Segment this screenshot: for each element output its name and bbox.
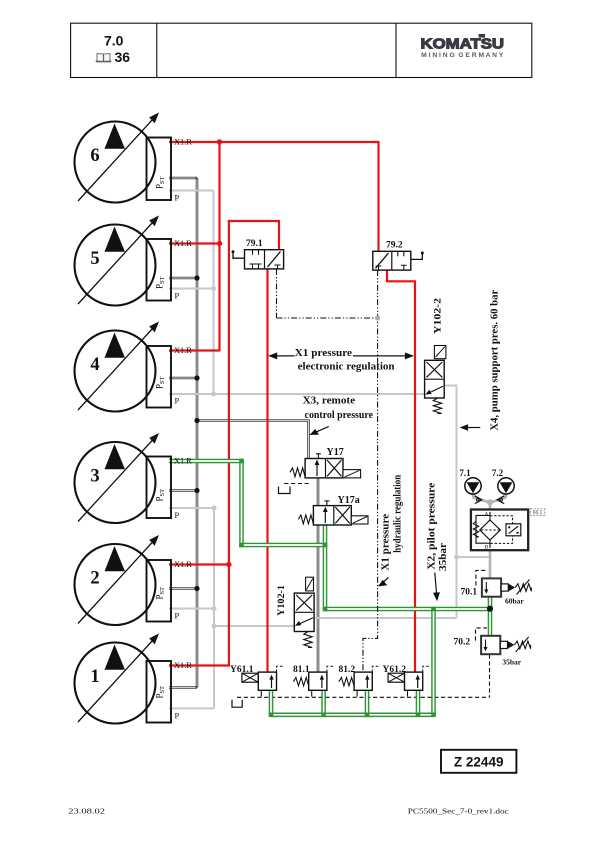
wire: pump 5 Pst stub bbox=[169, 277, 197, 280]
svg-text:X1.R: X1.R bbox=[174, 138, 192, 147]
drawing number Z 22449 bbox=[441, 750, 516, 773]
svg-text:X1.R: X1.R bbox=[174, 239, 192, 248]
svg-text:KOMATSU: KOMATSU bbox=[421, 36, 505, 52]
wire: dash-dot from 79.1 bbox=[276, 269, 278, 318]
valve Y17 bbox=[290, 447, 361, 478]
wire: green riser bbox=[431, 609, 436, 715]
green wire junction (271,714.8) bbox=[269, 713, 274, 718]
wire: 70.1 pilot dashed bbox=[476, 570, 488, 585]
svg-text:P: P bbox=[175, 711, 180, 720]
svg-text:3: 3 bbox=[90, 467, 99, 487]
junction: P bus pump 5 bbox=[211, 286, 216, 291]
svg-text:X1 pressure: X1 pressure bbox=[380, 513, 391, 570]
wire: Y17 drain to tank bbox=[285, 484, 309, 487]
wire: Y17a output green down bbox=[323, 522, 328, 609]
check valve 7.2 bbox=[492, 468, 514, 494]
svg-text:X2, pilot pressure: X2, pilot pressure bbox=[427, 482, 438, 569]
wire: check valve 7.2 outlet stem bbox=[491, 494, 506, 502]
junction: Pst bus node y=588.5 bbox=[194, 586, 199, 591]
filter unit 66.1 bbox=[471, 510, 528, 551]
green wire junction (323.6,714.8) bbox=[321, 713, 326, 718]
junction: Pst bus node y=278 bbox=[194, 275, 199, 280]
wire: 81.1 output bbox=[321, 689, 326, 715]
wire: green bottom bus bbox=[271, 712, 434, 717]
junction: Pst bus node y=420.5 bbox=[194, 418, 199, 423]
junction: X4 line to filter B bbox=[454, 555, 459, 560]
svg-text:6: 6 bbox=[90, 146, 99, 166]
pump 6 bbox=[75, 113, 193, 203]
tank symbol (Y17 drain) bbox=[279, 487, 291, 494]
svg-text:79.1: 79.1 bbox=[246, 239, 263, 249]
svg-text:70.2: 70.2 bbox=[454, 638, 471, 648]
wire: dark gray P-ST bus bbox=[196, 178, 199, 688]
wire: pump 3 X1R green line bbox=[169, 461, 325, 545]
green wire junction (325,609) bbox=[323, 607, 328, 612]
svg-text:Y102-1: Y102-1 bbox=[277, 585, 287, 616]
wire: pump 3 Pst stub bbox=[169, 489, 197, 492]
svg-text:P: P bbox=[175, 292, 180, 301]
label 66.1 bbox=[530, 509, 544, 515]
wire: pump 4 Pst stub bbox=[169, 377, 197, 380]
check valve arrows bbox=[475, 496, 482, 504]
green wire junction (433.5,714.8) bbox=[431, 713, 436, 718]
wire: light gray P bus (pumps 6,5) bbox=[213, 191, 215, 395]
junction: P bus to pump4 P line bbox=[211, 392, 216, 397]
svg-text:35bar: 35bar bbox=[438, 543, 449, 571]
svg-text:7.0: 7.0 bbox=[104, 33, 124, 49]
wire: pump 2 Pst stub bbox=[169, 587, 197, 590]
wire: pump 1 Pst stub bbox=[169, 686, 197, 689]
svg-text:hydraulic regulation: hydraulic regulation bbox=[393, 475, 404, 553]
svg-text:X1.R: X1.R bbox=[174, 661, 192, 670]
junction: P bus to Y102-1 branch bbox=[212, 624, 217, 629]
svg-text:P: P bbox=[175, 397, 180, 406]
svg-text:Y17a: Y17a bbox=[338, 495, 360, 506]
svg-text:70.1: 70.1 bbox=[461, 588, 478, 598]
junction: X1R pump 2 node bbox=[226, 562, 231, 567]
svg-text:60bar: 60bar bbox=[505, 597, 524, 606]
svg-text:X1.R: X1.R bbox=[174, 457, 192, 466]
wire: red top line to valve 79.2 bbox=[169, 142, 379, 251]
svg-text:79.2: 79.2 bbox=[386, 241, 403, 251]
wire: red X1R bus pumps 6,5,4 bbox=[218, 142, 220, 352]
svg-text:7.2: 7.2 bbox=[492, 468, 504, 478]
wire: light gray P bus (pumps 3,2,1) bbox=[213, 508, 215, 708]
wire: dash-dot horizontal link bbox=[277, 317, 378, 319]
annotation: X1 pressure electronic regulation double arrow bbox=[270, 355, 413, 357]
wire: 70.2 drain dashed bbox=[489, 654, 491, 697]
wire: 70.2 pilot dashed bbox=[476, 628, 488, 641]
wire: Y61.2 output bbox=[416, 689, 421, 715]
svg-text:36: 36 bbox=[115, 49, 131, 65]
svg-text:electronic regulation: electronic regulation bbox=[298, 361, 395, 373]
svg-text:1: 1 bbox=[90, 667, 99, 687]
svg-text:2: 2 bbox=[90, 569, 99, 589]
wire: pump 4 P line to valve Y102-2 bbox=[169, 393, 425, 395]
svg-text:A: A bbox=[485, 512, 489, 518]
svg-text:Y17: Y17 bbox=[327, 447, 344, 458]
svg-text:PC5500_Sec_7-0_rev1.doc: PC5500_Sec_7-0_rev1.doc bbox=[408, 806, 510, 815]
wire: 81.2 output bbox=[365, 689, 370, 715]
wire: red line pumps 1,2 to valve 79.1 bbox=[169, 221, 279, 666]
svg-text:X4, pump support pres. 60 bar: X4, pump support pres. 60 bar bbox=[490, 289, 501, 431]
junction: Pst bus node y=378 bbox=[194, 375, 199, 380]
valve Y17a bbox=[298, 495, 368, 525]
wire: valve 79.1 output to Y61.1 bbox=[266, 269, 268, 673]
svg-text:X1 pressure: X1 pressure bbox=[295, 347, 352, 359]
svg-text:81.2: 81.2 bbox=[339, 665, 356, 675]
svg-text:control pressure: control pressure bbox=[305, 409, 373, 421]
svg-text:X1.R: X1.R bbox=[174, 560, 192, 569]
wire: X3 remote control pressure branch bbox=[197, 421, 309, 462]
svg-text:81.1: 81.1 bbox=[293, 665, 310, 675]
wire: valve 79.2 output to Y61.2 bbox=[387, 270, 415, 673]
junction: X1R bus pump 6 bbox=[217, 139, 222, 144]
tank symbol (bottom drain) bbox=[232, 700, 242, 707]
relief valve 70.2 bbox=[454, 636, 531, 667]
check valve 7.1 bbox=[459, 468, 481, 494]
wire: green main X2 pilot line bbox=[325, 607, 490, 612]
valve 79.1 bbox=[232, 239, 284, 269]
junction: P bus pump 2 bbox=[212, 606, 217, 611]
svg-text:23.08.02: 23.08.02 bbox=[68, 806, 105, 815]
valve 79.2 bbox=[373, 241, 424, 271]
wire: X4 pump support vertical bbox=[444, 386, 456, 619]
junction: Pst bus node y=490.5 bbox=[194, 488, 199, 493]
pump 4 bbox=[75, 322, 193, 412]
wire: filter B port stem to 70.1 bbox=[489, 550, 492, 580]
junction: X1R bus pump 5 bbox=[217, 241, 222, 246]
svg-text:X1.R: X1.R bbox=[174, 346, 192, 355]
wire: check valve 7.1 outlet stem bbox=[473, 494, 489, 502]
wire: pump 6 Pst stub bbox=[169, 177, 197, 180]
svg-text:M I N I N G G E R M A N Y: M I N I N G G E R M A N Y bbox=[421, 52, 504, 59]
valve Y102-2 bbox=[425, 298, 446, 414]
green wire junction (241.5,545) bbox=[239, 543, 244, 548]
svg-text:Z 22449: Z 22449 bbox=[454, 754, 504, 769]
wire: X4 branch to filter B port bbox=[457, 556, 491, 558]
wire: Y17 to Y17a to 81.1 line bbox=[317, 474, 320, 674]
junction: P bus pump 3 bbox=[212, 506, 217, 511]
wire: filter A port stem bbox=[489, 502, 492, 510]
svg-text:X3, remote: X3, remote bbox=[303, 395, 356, 407]
wire: drain line bottom bbox=[237, 696, 490, 698]
svg-text:4: 4 bbox=[90, 355, 99, 375]
pump 1 bbox=[75, 634, 193, 724]
pump 3 bbox=[75, 433, 193, 523]
valve Y102-1 bbox=[277, 577, 314, 647]
svg-text:Y102-2: Y102-2 bbox=[434, 298, 444, 334]
svg-text:66.1: 66.1 bbox=[533, 510, 543, 516]
svg-text:P: P bbox=[175, 612, 180, 621]
header frame bbox=[71, 23, 532, 77]
svg-text:35bar: 35bar bbox=[502, 657, 521, 666]
wire: P bus branch to valve Y102-1 bbox=[214, 625, 294, 627]
svg-text:P: P bbox=[175, 194, 180, 203]
book icon bbox=[96, 54, 111, 62]
svg-text:5: 5 bbox=[90, 249, 99, 269]
green wire junction (418,714.8) bbox=[416, 713, 421, 718]
pump 2 bbox=[75, 535, 193, 625]
pump 5 bbox=[75, 216, 193, 306]
relief valve 70.1 bbox=[461, 578, 532, 605]
svg-text:B: B bbox=[485, 545, 489, 551]
wire: Y61.1 output bbox=[269, 689, 274, 715]
green wire junction (325,545) bbox=[323, 543, 328, 548]
wire: dash-dot from 79.2 to 81.2 bbox=[363, 270, 378, 671]
green wire junction (433.5,609) bbox=[431, 607, 436, 612]
svg-text:7.1: 7.1 bbox=[459, 468, 471, 478]
svg-text:P: P bbox=[175, 511, 180, 520]
green wire junction (241.5,461) bbox=[239, 459, 244, 464]
green wire junction (367,714.8) bbox=[365, 713, 370, 718]
junction: X2 pilot node at 70.1 bbox=[487, 606, 493, 612]
wire: 70.1 to 70.2 green bbox=[488, 596, 493, 637]
wire: Y102-1 to X4 support line bbox=[314, 617, 456, 619]
